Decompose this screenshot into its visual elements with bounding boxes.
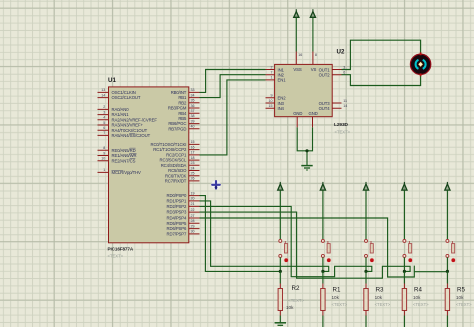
svg-text:21: 21 bbox=[191, 202, 195, 206]
svg-text:35: 35 bbox=[191, 99, 195, 103]
svg-text:11: 11 bbox=[343, 99, 347, 103]
svg-text:5: 5 bbox=[103, 121, 105, 125]
svg-text:25: 25 bbox=[191, 172, 195, 176]
svg-text:R4: R4 bbox=[414, 287, 422, 294]
svg-text:9: 9 bbox=[103, 151, 105, 155]
svg-text:4: 4 bbox=[103, 116, 105, 120]
svg-text:23: 23 bbox=[191, 161, 195, 165]
svg-text:1: 1 bbox=[271, 76, 273, 80]
svg-text:7: 7 bbox=[103, 131, 105, 135]
svg-text:36: 36 bbox=[191, 104, 195, 108]
svg-text:37: 37 bbox=[191, 109, 195, 113]
svg-text:R5: R5 bbox=[457, 287, 465, 294]
svg-text:U2: U2 bbox=[337, 49, 345, 56]
svg-text:2: 2 bbox=[103, 105, 105, 109]
svg-text:VSS: VSS bbox=[293, 67, 301, 72]
svg-text:9: 9 bbox=[271, 94, 273, 98]
svg-text:R1: R1 bbox=[333, 287, 341, 294]
svg-text:16: 16 bbox=[191, 145, 195, 149]
svg-text:<TEXT>: <TEXT> bbox=[288, 298, 304, 303]
svg-text:OUT2: OUT2 bbox=[319, 73, 331, 78]
svg-text:RD2/PSP2: RD2/PSP2 bbox=[167, 204, 187, 209]
svg-text:34: 34 bbox=[191, 93, 195, 97]
svg-text:R3: R3 bbox=[376, 287, 384, 294]
svg-text:14: 14 bbox=[343, 104, 347, 108]
svg-text:15: 15 bbox=[269, 104, 273, 108]
svg-text:18: 18 bbox=[191, 156, 195, 160]
svg-text:40: 40 bbox=[191, 125, 195, 129]
svg-text:29: 29 bbox=[191, 224, 195, 228]
svg-text:VS: VS bbox=[311, 67, 317, 72]
svg-text:RD4/PSP4: RD4/PSP4 bbox=[167, 216, 187, 221]
svg-text:MCLR/Vpp/THV: MCLR/Vpp/THV bbox=[112, 170, 142, 175]
svg-text:30: 30 bbox=[191, 230, 195, 234]
svg-text:22: 22 bbox=[191, 208, 195, 212]
svg-text:GND: GND bbox=[309, 111, 318, 116]
svg-text:OUT4: OUT4 bbox=[319, 106, 331, 111]
svg-text:<TEXT>: <TEXT> bbox=[335, 129, 351, 134]
svg-text:10: 10 bbox=[269, 99, 273, 103]
svg-text:RC7/RX/DT: RC7/RX/DT bbox=[165, 179, 187, 184]
svg-text:RD1/PSP1: RD1/PSP1 bbox=[167, 199, 187, 204]
svg-text:RD0/PSP0: RD0/PSP0 bbox=[167, 193, 187, 198]
svg-text:RA5/AN4/SS/C2OUT: RA5/AN4/SS/C2OUT bbox=[112, 133, 151, 138]
svg-text:10k: 10k bbox=[413, 295, 421, 300]
svg-text:27: 27 bbox=[191, 214, 195, 218]
svg-text:RD5/PSP5: RD5/PSP5 bbox=[167, 221, 187, 226]
svg-text:GND: GND bbox=[293, 111, 302, 116]
svg-text:6: 6 bbox=[343, 71, 345, 75]
svg-text:2: 2 bbox=[271, 65, 273, 69]
svg-text:17: 17 bbox=[191, 151, 195, 155]
svg-text:10k: 10k bbox=[375, 295, 383, 300]
svg-text:3: 3 bbox=[343, 65, 345, 69]
svg-text:10k: 10k bbox=[332, 295, 340, 300]
svg-text:<TEXT>: <TEXT> bbox=[332, 302, 348, 307]
svg-text:10: 10 bbox=[101, 157, 105, 161]
svg-text:19: 19 bbox=[191, 191, 195, 195]
svg-text:26: 26 bbox=[191, 177, 195, 181]
svg-text:EN1: EN1 bbox=[278, 78, 287, 83]
svg-text:10k: 10k bbox=[286, 305, 294, 310]
svg-text:8: 8 bbox=[315, 53, 317, 57]
svg-text:8: 8 bbox=[103, 146, 105, 150]
svg-text:L293D: L293D bbox=[334, 122, 349, 128]
svg-text:39: 39 bbox=[191, 119, 195, 123]
svg-text:OSC2/CLKOUT: OSC2/CLKOUT bbox=[112, 95, 141, 100]
svg-text:7: 7 bbox=[271, 71, 273, 75]
svg-text:RC1/T1OSI/CCP2: RC1/T1OSI/CCP2 bbox=[153, 147, 187, 152]
svg-text:PIC16F877A: PIC16F877A bbox=[108, 247, 134, 252]
svg-text:RD3/PSP3: RD3/PSP3 bbox=[167, 210, 187, 215]
svg-text:3: 3 bbox=[103, 110, 105, 114]
svg-text:15: 15 bbox=[191, 140, 195, 144]
svg-text:13: 13 bbox=[101, 88, 105, 92]
svg-text:16: 16 bbox=[298, 53, 302, 57]
svg-text:28: 28 bbox=[191, 219, 195, 223]
svg-text:38: 38 bbox=[191, 114, 195, 118]
svg-text:IN4: IN4 bbox=[278, 106, 285, 111]
svg-text:14: 14 bbox=[101, 93, 105, 97]
svg-text:20: 20 bbox=[191, 197, 195, 201]
svg-text:6: 6 bbox=[103, 126, 105, 130]
svg-text:<TEXT>: <TEXT> bbox=[375, 302, 391, 307]
svg-text:RD7/PSP7: RD7/PSP7 bbox=[167, 232, 187, 237]
svg-text:1: 1 bbox=[103, 168, 105, 172]
svg-text:RD6/PSP6: RD6/PSP6 bbox=[167, 226, 187, 231]
svg-text:RE2/AN7/CS: RE2/AN7/CS bbox=[112, 158, 136, 163]
svg-text:R2: R2 bbox=[292, 285, 300, 292]
svg-text:<TEXT>: <TEXT> bbox=[456, 302, 472, 307]
svg-text:<TEXT>: <TEXT> bbox=[108, 254, 124, 259]
svg-text:24: 24 bbox=[191, 166, 195, 170]
svg-text:33: 33 bbox=[191, 88, 195, 92]
svg-text:<TEXT>: <TEXT> bbox=[413, 302, 429, 307]
svg-text:10k: 10k bbox=[456, 295, 464, 300]
svg-text:RB7/PGD: RB7/PGD bbox=[168, 126, 186, 131]
svg-text:U1: U1 bbox=[108, 77, 116, 84]
